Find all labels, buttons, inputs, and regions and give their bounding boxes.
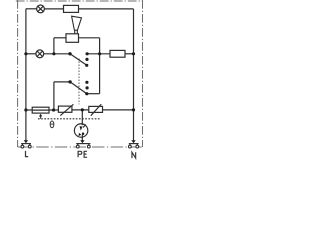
lamp X2 bbox=[36, 50, 44, 58]
node row2 right branch bbox=[98, 52, 101, 55]
thermal dashed line bbox=[38, 118, 101, 120]
border top bbox=[16, 0, 143, 2]
switch1 blade end bbox=[85, 64, 88, 67]
switch2 blade end bbox=[85, 92, 88, 95]
wire L top corner to lamp1 bbox=[26, 8, 37, 10]
wire R3 to varistor RV1 bbox=[49, 109, 58, 111]
wire from right branch to switch2 blade end bbox=[87, 93, 100, 95]
node N-varistor row bbox=[132, 108, 135, 111]
spark gap exit line to PE bbox=[81, 135, 83, 142]
thermal arrow to R3 bbox=[39, 114, 42, 117]
fuse line through R3 bbox=[32, 109, 49, 111]
wire left of disconnector box bbox=[54, 37, 66, 39]
switch2 contact a bbox=[85, 81, 88, 84]
wire lamp1 to R1 bbox=[44, 8, 63, 10]
node varistor row left branch bbox=[52, 108, 55, 111]
wire switch1 contact to resistor R2 bbox=[87, 53, 110, 55]
label PE bbox=[78, 151, 87, 157]
node L-row2 bbox=[24, 52, 27, 55]
terminal PE bbox=[76, 140, 90, 148]
theta stem bbox=[40, 116, 42, 119]
spark gap F1 circle bbox=[74, 124, 88, 138]
junction and contact dots bbox=[24, 52, 135, 136]
wire R2 to N conductor bbox=[125, 53, 134, 55]
switch2 blade bbox=[70, 82, 87, 94]
wire L to lamp2 bbox=[26, 53, 36, 55]
resistor R1 bbox=[64, 5, 79, 12]
switch1 contact b bbox=[85, 58, 88, 61]
mechanical linkage dotted bbox=[78, 59, 80, 105]
spark gap flash diagonal bbox=[83, 125, 86, 128]
spark gap arrow 1 bbox=[80, 126, 83, 131]
node varistor mid bbox=[81, 108, 84, 111]
switch1 blade bbox=[70, 54, 87, 66]
terminal N bbox=[129, 140, 139, 148]
resistor R2 bbox=[110, 50, 125, 57]
node row2 left branch bbox=[52, 52, 55, 55]
label L bbox=[26, 151, 29, 157]
disconnector box bbox=[66, 34, 79, 43]
spark gap blob bbox=[82, 133, 84, 135]
border: device outline dash-dot bbox=[16, 0, 143, 147]
conductor L vertical bbox=[25, 9, 27, 141]
border bottom bbox=[18, 146, 143, 148]
border right bbox=[142, 0, 144, 147]
label N bbox=[132, 152, 136, 158]
border left bbox=[17, 0, 19, 147]
terminal L bbox=[21, 140, 31, 148]
switch2 pivot bbox=[68, 80, 71, 83]
label theta bbox=[50, 121, 54, 128]
wire left corner to switch2 pivot bbox=[54, 81, 70, 83]
switch2 contact b bbox=[86, 86, 89, 89]
node L-varistor row bbox=[24, 108, 27, 111]
switch1 pivot bbox=[68, 52, 71, 55]
disconnector flag bbox=[72, 16, 82, 34]
wire L to R3 bbox=[26, 109, 32, 111]
vertical right branch x=99.6 bbox=[99, 38, 101, 94]
lamp X1 bbox=[37, 5, 45, 13]
vertical from switch2 row down to varistor row bbox=[53, 82, 55, 110]
resistor R3 bbox=[32, 107, 49, 113]
varistor RV1 bbox=[58, 104, 73, 115]
node N-row2 bbox=[132, 52, 135, 55]
wire RV2 to N conductor bbox=[103, 109, 134, 111]
varistor RV2 bbox=[89, 104, 103, 116]
wire lamp2 to switch1 pivot bbox=[44, 53, 70, 55]
wire right of disconnector box bbox=[79, 37, 100, 39]
vertical from disconnector row down to row2 bbox=[53, 38, 55, 54]
vertical junction to spark gap bbox=[81, 110, 83, 125]
wire R1 to N conductor bbox=[79, 8, 134, 10]
conductor N vertical bbox=[133, 9, 135, 141]
switch1 contact a bbox=[86, 52, 89, 55]
wire RV1 to RV2 bbox=[72, 109, 89, 111]
spark gap arrow 2 bbox=[79, 133, 82, 136]
